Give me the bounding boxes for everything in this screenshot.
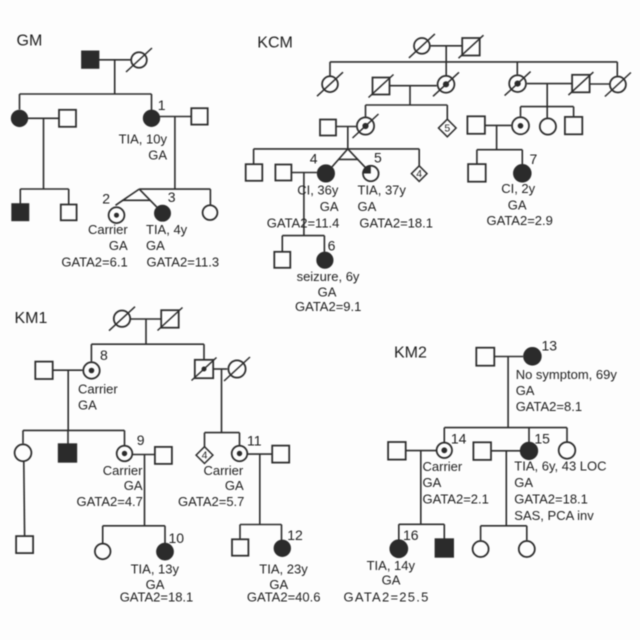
svg-text:TIA, 37y: TIA, 37y <box>358 183 407 198</box>
svg-text:GA: GA <box>320 199 339 214</box>
svg-text:GATA2=18.1: GATA2=18.1 <box>120 590 194 605</box>
wire GM twin line right <box>139 189 157 207</box>
svg-text:GM: GM <box>17 32 43 49</box>
wire KM2 II sibship <box>444 427 567 429</box>
KCM II-5 deceased male <box>568 72 593 95</box>
wire KM2 III-1 drop <box>398 524 400 539</box>
svg-text:KM1: KM1 <box>15 310 48 327</box>
svg-text:GA: GA <box>382 572 401 587</box>
wire GM III left sibship <box>20 188 68 190</box>
wire KM1 I drop <box>145 319 147 344</box>
svg-text:GATA2=25.5: GATA2=25.5 <box>344 589 430 604</box>
wire GM II left drop <box>43 118 45 189</box>
svg-text:5: 5 <box>374 150 382 166</box>
svg-text:No symptom, 69y: No symptom, 69y <box>516 367 618 382</box>
KM1 III-6 carrier female individual 11 <box>232 446 248 462</box>
KCM IV-4 carrier by symptoms female individual 5 <box>363 166 379 182</box>
wire KCM IV right sibship <box>477 149 522 151</box>
wire KM2 II-5 drop <box>566 428 568 442</box>
svg-text:TIA, 23y: TIA, 23y <box>259 562 308 577</box>
wire KM1 III right sibship <box>205 432 240 434</box>
KCM II-3 deceased carrier female <box>433 72 459 96</box>
KM1 III-5 diamond 4 individuals <box>196 447 213 464</box>
wire KM2 II-1 marriage <box>406 450 437 452</box>
svg-text:GA: GA <box>358 199 377 214</box>
GM I-2 deceased female <box>126 48 152 72</box>
svg-text:TIA, 4y: TIA, 4y <box>146 222 188 237</box>
wire KM2 II-4 drop <box>528 428 530 443</box>
svg-text:GATA2=11.3: GATA2=11.3 <box>147 255 220 270</box>
wire KM2 II-2 drop <box>443 428 445 442</box>
wire KCM IV left sibship <box>254 148 420 150</box>
svg-text:seizure, 6y: seizure, 6y <box>297 269 360 284</box>
svg-text:KM2: KM2 <box>394 345 427 362</box>
wire KM1 I marriage <box>131 318 162 320</box>
KM1 II-3 deceased carrier male <box>192 358 217 381</box>
wire GM III-1 drop <box>19 189 21 204</box>
KM1 IV-2 female <box>95 544 111 560</box>
svg-text:4: 4 <box>310 151 318 167</box>
svg-text:1: 1 <box>158 97 166 113</box>
KM2 II-1 male <box>388 442 406 460</box>
KM1 IV-4 male <box>232 539 248 555</box>
wire KCM IV-r1 drop <box>476 150 478 164</box>
svg-text:TIA, 14y: TIA, 14y <box>367 558 416 573</box>
wire KCM II-2 couple drop <box>409 86 411 105</box>
wire KCM IV-5 drop <box>418 149 420 166</box>
KM1 II-1 male <box>35 362 52 379</box>
KCM II-1 deceased female <box>317 72 343 96</box>
svg-text:GATA2=11.4: GATA2=11.4 <box>267 215 340 230</box>
wire KCM III left sibship <box>366 104 448 106</box>
wire GM II sibship <box>20 93 152 95</box>
svg-text:Carrier: Carrier <box>88 222 128 237</box>
svg-text:KCM: KCM <box>257 35 293 52</box>
wire KCM twin line right <box>348 149 366 168</box>
svg-text:GA: GA <box>225 478 244 493</box>
wire KCM III-1 marriage <box>336 126 356 128</box>
svg-text:TIA, 10y: TIA, 10y <box>119 131 168 146</box>
svg-text:3: 3 <box>168 189 176 205</box>
svg-text:GA: GA <box>514 475 533 490</box>
wire KM2 III-3 drop <box>480 526 482 540</box>
wire GM II left marriage <box>28 117 59 119</box>
svg-text:GATA2=4.7: GATA2=4.7 <box>77 494 143 509</box>
svg-text:15: 15 <box>534 431 550 447</box>
wire KM1 III left sibship <box>23 429 125 431</box>
wire KM1 II-2 drop <box>90 344 92 361</box>
KM1 III-2 affected male <box>59 444 77 462</box>
svg-text:GATA2=2.9: GATA2=2.9 <box>487 213 553 228</box>
svg-text:GATA2=40.6: GATA2=40.6 <box>247 590 321 605</box>
svg-text:GA: GA <box>146 238 165 253</box>
svg-text:GA: GA <box>124 478 143 493</box>
svg-text:Carrier: Carrier <box>203 463 243 478</box>
wire KCM II-4 drop <box>516 62 518 75</box>
wire GM II-1 drop <box>19 94 21 110</box>
KM1 I-2 deceased male <box>158 308 183 331</box>
svg-text:Carrier: Carrier <box>78 382 118 397</box>
KCM V-1 male <box>274 252 290 268</box>
KM1 II-4 deceased female <box>224 357 250 381</box>
wire KCM III-1 couple drop <box>347 127 349 149</box>
svg-text:2: 2 <box>102 191 110 207</box>
svg-text:TIA, 13y: TIA, 13y <box>131 562 180 577</box>
svg-text:GATA2=18.1: GATA2=18.1 <box>514 491 588 506</box>
KM2 I-2 affected female individual 13 <box>524 348 541 365</box>
KM2 III-2 affected male <box>436 539 454 557</box>
wire KM1 II-3 couple drop <box>221 369 223 433</box>
wire GM I drop <box>114 60 116 94</box>
wire KM2 II-1 couple drop <box>420 451 422 525</box>
wire KM1 III-3 couple drop <box>144 455 146 526</box>
KM2 III-4 female <box>519 541 535 557</box>
wire GM III right sibship <box>139 188 210 190</box>
KCM III-6 female <box>540 118 556 134</box>
wire GM II-3 drop <box>151 94 153 110</box>
KCM III-1 male <box>320 120 336 136</box>
svg-text:SAS, PCA inv: SAS, PCA inv <box>514 508 594 523</box>
svg-text:GATA2=6.1: GATA2=6.1 <box>61 255 127 270</box>
svg-text:6: 6 <box>328 238 336 254</box>
wire KM1 IV right sibship <box>240 524 282 526</box>
KCM III-4 male <box>467 116 485 134</box>
wire KM2 I drop <box>507 357 509 428</box>
wire KCM IV-r2 drop <box>521 150 523 164</box>
wire KCM III-4 couple drop <box>496 125 498 149</box>
wire KM1 II sibship <box>91 343 204 345</box>
wire KM2 I marriage <box>495 356 523 358</box>
wire KM2 III-4 drop <box>526 526 528 540</box>
KCM IV-2 male <box>275 165 291 181</box>
wire KM1 III-6 couple drop <box>259 455 261 525</box>
svg-text:5: 5 <box>444 123 450 135</box>
wire KCM III-5 drop <box>520 107 522 117</box>
svg-text:GA: GA <box>148 148 167 163</box>
KCM III-2 deceased carrier female <box>353 114 379 138</box>
wire KCM III-4 marriage <box>485 124 511 126</box>
GM III-2 male <box>61 205 77 221</box>
svg-text:GA: GA <box>423 475 442 490</box>
GM I-1 affected male <box>82 51 99 68</box>
svg-text:11: 11 <box>247 433 262 449</box>
svg-text:GATA2=2.1: GATA2=2.1 <box>423 491 489 506</box>
wire GM III-2 drop <box>68 189 70 205</box>
wire KCM V-2 drop <box>323 236 325 252</box>
KM2 II-2 carrier female individual 14 <box>437 443 452 458</box>
wire KM1 IV-4 drop <box>239 525 241 540</box>
KCM IV-3 affected female individual 4 <box>318 165 334 181</box>
KM2 III-1 affected female individual 16 <box>390 540 407 557</box>
wire KCM III-2 drop <box>365 105 367 117</box>
svg-text:10: 10 <box>169 530 185 546</box>
wire KM1 III-1 drop <box>22 430 24 443</box>
wire GM II right drop <box>174 117 176 190</box>
svg-text:GATA2=5.7: GATA2=5.7 <box>178 494 244 509</box>
svg-text:GA: GA <box>109 238 128 253</box>
wire KCM II-1 drop <box>329 62 331 76</box>
wire KCM I drop <box>445 46 447 62</box>
wire KCM IV-2 couple drop <box>303 173 305 236</box>
svg-text:9: 9 <box>137 432 145 448</box>
wire KCM III right sibship <box>521 106 574 108</box>
wire KM1 III-5 drop <box>204 433 206 447</box>
wire GM III-5 drop <box>209 189 211 205</box>
wire KCM III-3 drop <box>446 105 448 119</box>
wire KCM V sibship <box>282 235 324 237</box>
wire KM1 III-2 drop <box>67 430 69 444</box>
KCM IV-r1 male <box>468 164 486 182</box>
wire KM1 IV-5 drop <box>281 525 283 541</box>
svg-text:12: 12 <box>287 527 303 543</box>
wire KM1 III-6 drop <box>239 433 241 446</box>
wire KM1 II-1 couple drop <box>67 370 69 430</box>
wire KM1 II-1 marriage <box>53 369 83 371</box>
wire KM2 II-3 marriage <box>491 450 520 452</box>
KCM IV-5 diamond 4 individuals <box>411 166 427 182</box>
svg-text:13: 13 <box>542 337 558 353</box>
svg-text:TIA, 6y, 43 LOC: TIA, 6y, 43 LOC <box>514 459 606 474</box>
wire KM1 IV-2 drop <box>102 526 104 543</box>
wire KCM II sibship <box>330 61 617 63</box>
svg-text:GATA2=18.1: GATA2=18.1 <box>359 215 433 230</box>
wire KCM twin line left <box>332 149 348 167</box>
KCM IV-1 male <box>246 164 263 181</box>
wire KM1 III-1 child drop <box>23 462 26 536</box>
KM1 III-3 carrier female individual 9 <box>117 446 133 462</box>
KM2 II-3 male <box>473 442 491 460</box>
svg-text:4: 4 <box>202 450 208 462</box>
svg-text:Carrier: Carrier <box>103 463 143 478</box>
svg-text:GA: GA <box>516 383 535 398</box>
KCM III-7 male <box>565 117 582 134</box>
KM1 I-1 deceased female <box>109 307 135 331</box>
wire KM1 III-3 marriage <box>132 454 155 456</box>
wire KCM I marriage <box>431 45 463 47</box>
svg-text:GA: GA <box>318 284 337 299</box>
wire KM1 IV left sibship <box>103 525 165 527</box>
svg-text:CI, 36y: CI, 36y <box>297 183 339 198</box>
KM2 II-4 affected female individual 15 <box>521 443 538 460</box>
KCM V-2 affected female individual 6 <box>317 253 332 268</box>
KM2 I-1 male <box>476 348 494 366</box>
wire KM1 IV-3 drop <box>164 526 166 543</box>
wire KCM III-6 drop <box>546 107 548 118</box>
wire KM1 III-6 marriage <box>247 453 272 455</box>
wire KCM II-6 drop <box>616 62 618 76</box>
KM1 II-2 carrier female individual 8 <box>83 362 99 378</box>
GM II-1 affected female <box>12 111 28 127</box>
svg-text:14: 14 <box>451 431 467 447</box>
wire KM2 II-3 couple drop <box>505 451 507 526</box>
svg-text:GA: GA <box>78 398 97 413</box>
wire GM twin line left <box>116 189 140 205</box>
KCM II-2 deceased male <box>369 75 394 98</box>
wire KM1 II-3 marriage <box>213 368 227 370</box>
KCM III-3 diamond 5 individuals <box>439 119 457 137</box>
svg-text:GATA2=8.1: GATA2=8.1 <box>516 399 582 414</box>
KCM III-5 carrier female <box>512 117 529 134</box>
wire KCM II-5 marriage <box>590 83 610 85</box>
svg-text:GATA2=9.1: GATA2=9.1 <box>295 299 361 314</box>
KCM II-4 deceased carrier female <box>505 72 531 96</box>
wire KCM twin crossbar <box>339 158 358 160</box>
GM III-4 affected female individual 3 <box>155 206 170 221</box>
KM1 III-4 male <box>155 447 172 464</box>
wire KM1 III-3 drop <box>124 430 126 445</box>
KM2 II-5 female <box>559 442 576 459</box>
wire KCM IV-2 marriage <box>291 172 317 174</box>
GM III-3 carrier female individual 2 <box>109 207 125 223</box>
wire KCM II-4 marriage <box>527 83 572 85</box>
KCM II-6 deceased female <box>605 73 631 97</box>
wire KM1 II-3 drop <box>203 344 205 359</box>
wire KCM II-4 couple drop <box>546 84 548 107</box>
wire KM2 III left sibship <box>399 523 445 525</box>
KM1 III-7 male <box>272 446 289 463</box>
KM1 IV-1 male <box>16 536 33 553</box>
GM II-4 male <box>191 108 207 124</box>
svg-text:7: 7 <box>530 151 538 167</box>
wire KCM V-1 drop <box>281 236 283 252</box>
svg-text:8: 8 <box>100 347 108 363</box>
svg-text:16: 16 <box>403 527 419 543</box>
wire KCM IV-1 drop <box>253 149 255 164</box>
GM III-5 female <box>203 205 218 220</box>
wire KM2 III-2 drop <box>443 524 445 539</box>
svg-text:GA: GA <box>508 198 527 213</box>
KM1 IV-5 affected female individual 12 <box>275 541 291 557</box>
wire KM2 III right sibship <box>481 525 527 527</box>
wire GM twin crossbar <box>122 199 150 201</box>
GM II-3 affected female individual 1 <box>144 111 160 127</box>
KCM I-2 deceased male <box>459 35 484 58</box>
svg-text:Carrier: Carrier <box>423 459 463 474</box>
KCM IV-r2 affected female individual 7 <box>514 165 531 182</box>
KM1 IV-3 affected female individual 10 <box>157 544 173 560</box>
GM II-2 male <box>59 110 76 127</box>
wire KCM II-2 marriage <box>390 85 437 87</box>
svg-text:CI, 2y: CI, 2y <box>501 181 535 196</box>
wire KCM II-3 drop <box>445 62 447 75</box>
wire KCM III-7 drop <box>573 107 575 117</box>
svg-text:4: 4 <box>416 168 422 180</box>
KM1 III-1 female <box>15 444 32 461</box>
GM III-1 affected male <box>12 204 28 220</box>
wire GM I marriage <box>99 59 131 61</box>
wire GM II right marriage <box>160 116 191 118</box>
KM2 III-3 female <box>473 541 489 557</box>
KCM I-1 deceased female <box>409 34 435 58</box>
